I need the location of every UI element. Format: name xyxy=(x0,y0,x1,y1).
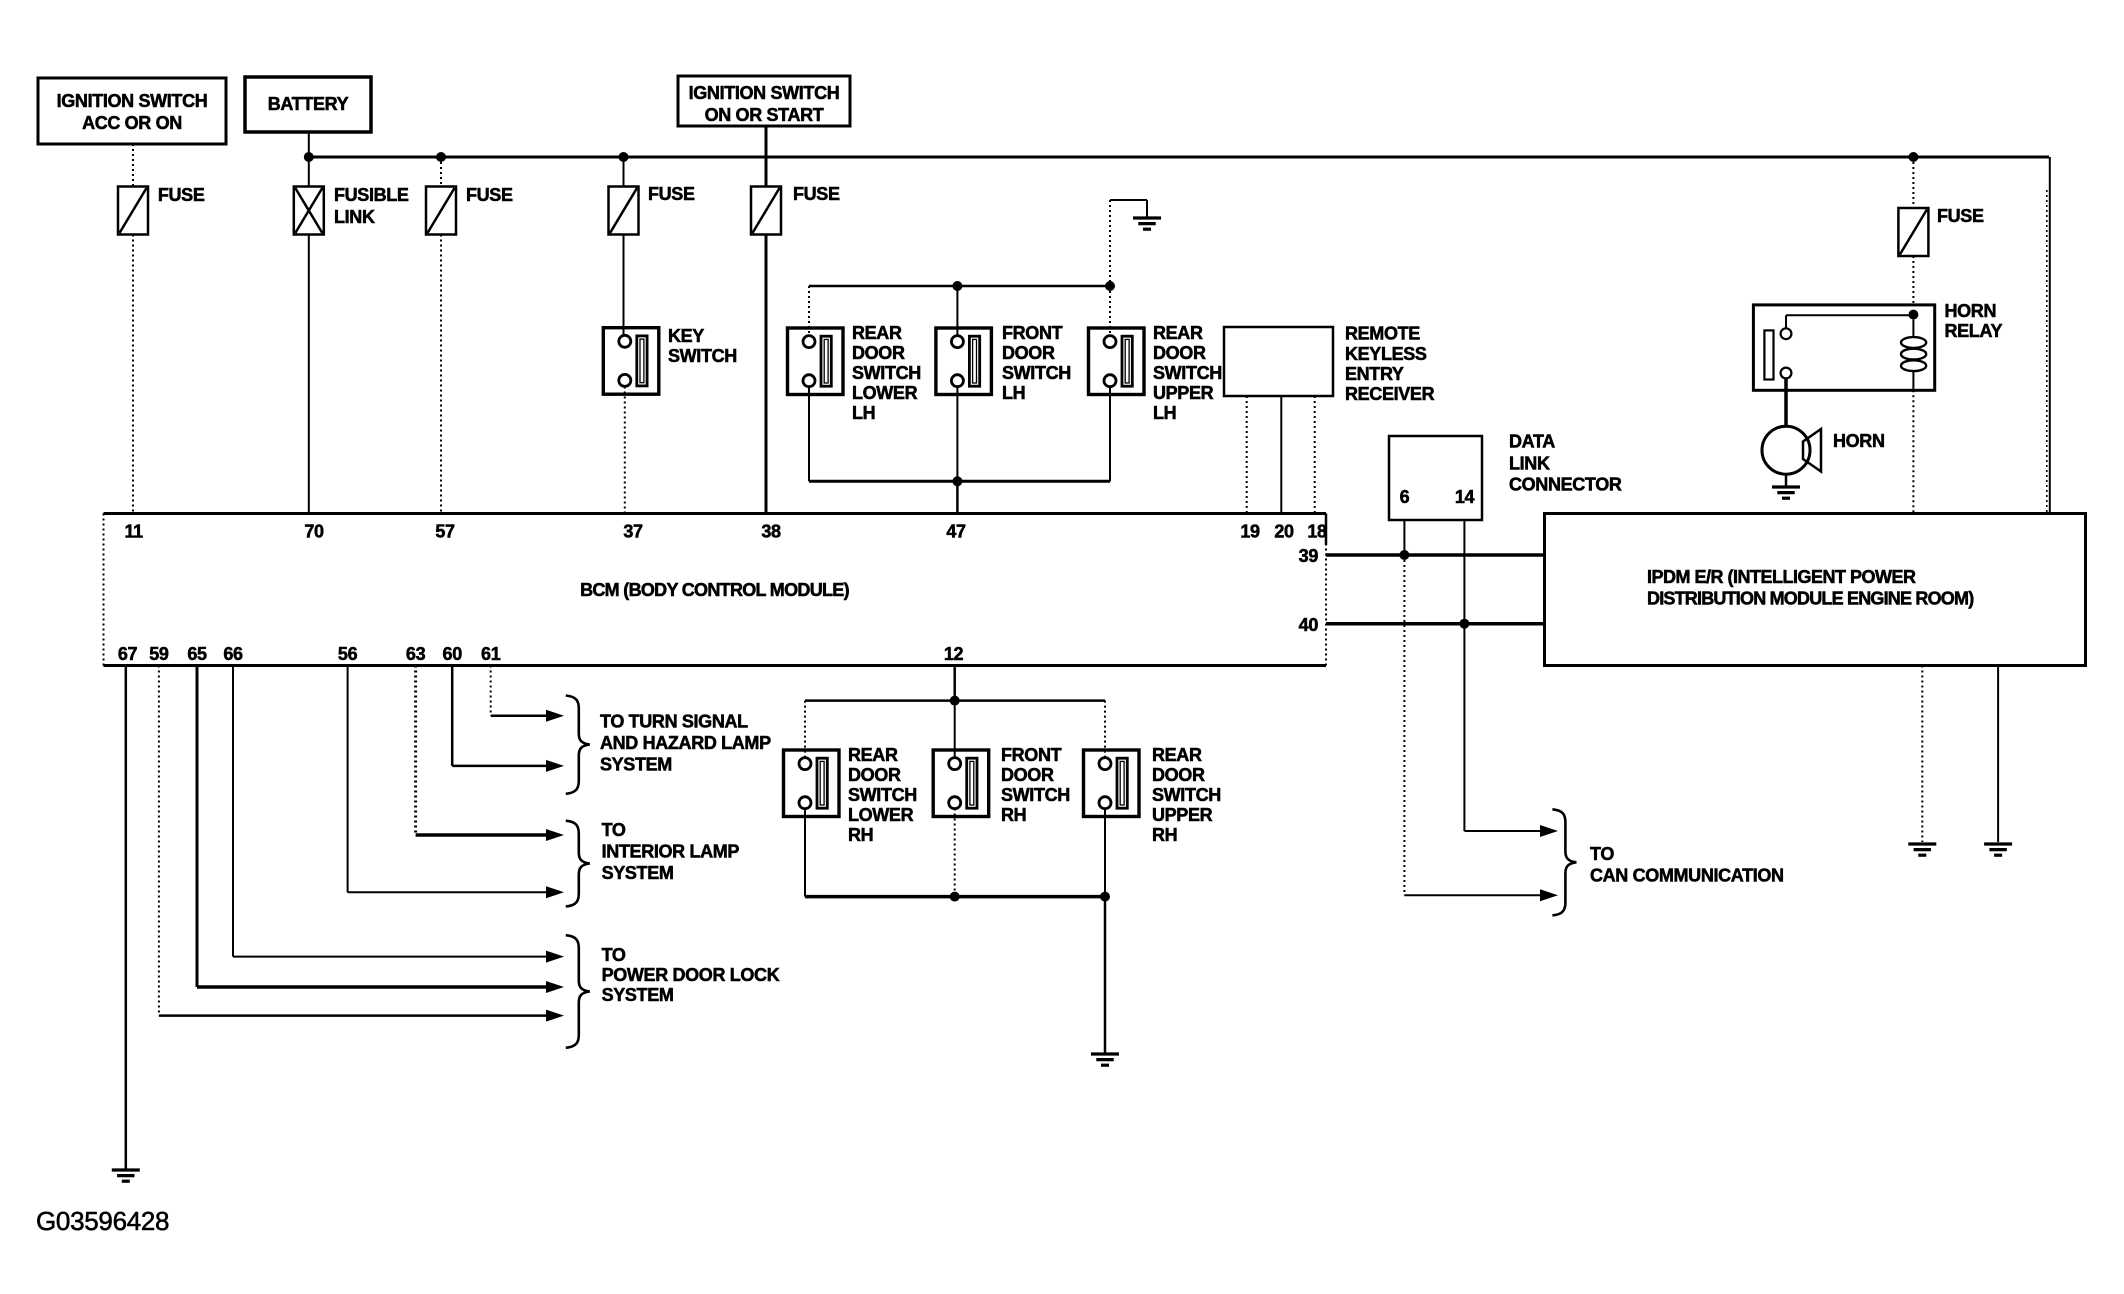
svg-text:SWITCH: SWITCH xyxy=(852,363,921,383)
svg-text:38: 38 xyxy=(761,522,781,542)
svg-text:61: 61 xyxy=(481,644,501,664)
svg-text:LH: LH xyxy=(1153,403,1176,423)
svg-text:RH: RH xyxy=(1001,805,1026,825)
svg-text:LH: LH xyxy=(852,403,875,423)
svg-text:KEYLESS: KEYLESS xyxy=(1345,344,1427,364)
svg-text:12: 12 xyxy=(944,644,964,664)
svg-text:63: 63 xyxy=(406,644,426,664)
svg-text:SWITCH: SWITCH xyxy=(1002,363,1071,383)
svg-text:REAR: REAR xyxy=(1152,745,1202,765)
svg-text:20: 20 xyxy=(1274,522,1294,542)
svg-text:DOOR: DOOR xyxy=(1152,765,1205,785)
svg-text:FUSE: FUSE xyxy=(648,184,695,204)
svg-text:39: 39 xyxy=(1299,546,1319,566)
svg-text:FUSE: FUSE xyxy=(1937,206,1984,226)
svg-text:ON OR START: ON OR START xyxy=(705,105,824,125)
svg-text:DOOR: DOOR xyxy=(1153,343,1206,363)
svg-text:REMOTE: REMOTE xyxy=(1345,324,1420,344)
svg-text:60: 60 xyxy=(443,644,463,664)
svg-text:UPPER: UPPER xyxy=(1152,805,1213,825)
svg-text:47: 47 xyxy=(946,522,966,542)
svg-text:CONNECTOR: CONNECTOR xyxy=(1509,475,1622,495)
svg-text:INTERIOR LAMP: INTERIOR LAMP xyxy=(602,842,740,862)
svg-text:POWER DOOR LOCK: POWER DOOR LOCK xyxy=(602,965,780,985)
svg-text:37: 37 xyxy=(623,522,643,542)
svg-text:AND HAZARD LAMP: AND HAZARD LAMP xyxy=(600,733,771,753)
svg-text:DATA: DATA xyxy=(1509,432,1555,452)
svg-text:HORN: HORN xyxy=(1833,431,1885,451)
svg-text:TO: TO xyxy=(602,945,626,965)
svg-text:SWITCH: SWITCH xyxy=(668,346,737,366)
svg-text:SYSTEM: SYSTEM xyxy=(602,985,674,1005)
svg-text:40: 40 xyxy=(1299,615,1319,635)
svg-text:DOOR: DOOR xyxy=(1001,765,1054,785)
svg-text:66: 66 xyxy=(223,644,243,664)
svg-text:59: 59 xyxy=(149,644,169,664)
svg-text:RECEIVER: RECEIVER xyxy=(1345,384,1435,404)
svg-text:DOOR: DOOR xyxy=(848,765,901,785)
svg-text:FRONT: FRONT xyxy=(1002,323,1063,343)
svg-text:70: 70 xyxy=(304,522,324,542)
svg-text:14: 14 xyxy=(1455,487,1475,507)
svg-text:LINK: LINK xyxy=(1509,454,1550,474)
svg-text:FUSE: FUSE xyxy=(793,184,840,204)
svg-text:LH: LH xyxy=(1002,383,1025,403)
svg-text:6: 6 xyxy=(1400,487,1410,507)
svg-text:SWITCH: SWITCH xyxy=(1001,785,1070,805)
svg-text:UPPER: UPPER xyxy=(1153,383,1214,403)
svg-text:IGNITION SWITCH: IGNITION SWITCH xyxy=(689,83,840,103)
svg-text:57: 57 xyxy=(435,522,455,542)
svg-text:LOWER: LOWER xyxy=(852,383,918,403)
svg-text:RELAY: RELAY xyxy=(1945,321,2003,341)
svg-text:SWITCH: SWITCH xyxy=(1153,363,1222,383)
svg-text:DOOR: DOOR xyxy=(1002,343,1055,363)
svg-text:FRONT: FRONT xyxy=(1001,745,1062,765)
svg-text:TO TURN SIGNAL: TO TURN SIGNAL xyxy=(600,712,748,732)
svg-text:BATTERY: BATTERY xyxy=(268,94,349,114)
svg-text:18: 18 xyxy=(1307,522,1327,542)
svg-text:19: 19 xyxy=(1240,522,1260,542)
svg-text:SYSTEM: SYSTEM xyxy=(600,755,672,775)
svg-text:ACC OR ON: ACC OR ON xyxy=(82,113,182,133)
svg-text:LINK: LINK xyxy=(334,207,375,227)
svg-text:SYSTEM: SYSTEM xyxy=(602,863,674,883)
svg-text:IPDM E/R (INTELLIGENT POWER: IPDM E/R (INTELLIGENT POWER xyxy=(1647,567,1916,587)
svg-text:FUSE: FUSE xyxy=(466,185,513,205)
svg-text:LOWER: LOWER xyxy=(848,805,914,825)
svg-text:CAN COMMUNICATION: CAN COMMUNICATION xyxy=(1590,866,1784,886)
svg-text:65: 65 xyxy=(187,644,207,664)
svg-text:FUSIBLE: FUSIBLE xyxy=(334,185,409,205)
svg-text:DOOR: DOOR xyxy=(852,343,905,363)
svg-text:TO: TO xyxy=(1590,844,1614,864)
svg-text:SWITCH: SWITCH xyxy=(848,785,917,805)
svg-text:REAR: REAR xyxy=(852,323,902,343)
svg-text:SWITCH: SWITCH xyxy=(1152,785,1221,805)
svg-text:11: 11 xyxy=(125,522,144,542)
svg-text:RH: RH xyxy=(848,825,873,845)
svg-text:IGNITION SWITCH: IGNITION SWITCH xyxy=(57,91,208,111)
svg-text:HORN: HORN xyxy=(1945,301,1997,321)
svg-text:RH: RH xyxy=(1152,825,1177,845)
svg-text:56: 56 xyxy=(338,644,358,664)
svg-text:ENTRY: ENTRY xyxy=(1345,364,1404,384)
svg-text:TO: TO xyxy=(602,820,626,840)
svg-text:DISTRIBUTION MODULE ENGINE ROO: DISTRIBUTION MODULE ENGINE ROOM) xyxy=(1647,589,1974,609)
svg-text:REAR: REAR xyxy=(848,745,898,765)
svg-text:REAR: REAR xyxy=(1153,323,1203,343)
svg-text:67: 67 xyxy=(118,644,138,664)
svg-text:FUSE: FUSE xyxy=(158,185,205,205)
svg-text:BCM (BODY CONTROL MODULE): BCM (BODY CONTROL MODULE) xyxy=(580,580,850,600)
svg-text:G03596428: G03596428 xyxy=(36,1206,169,1236)
svg-text:KEY: KEY xyxy=(668,326,704,346)
